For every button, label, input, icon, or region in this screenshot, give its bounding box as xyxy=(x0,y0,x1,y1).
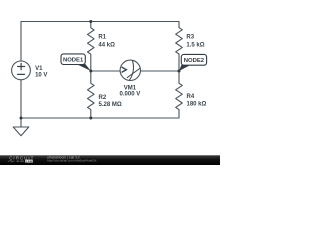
svg-text:http://circuitlab.com/c4p6sy64: http://circuitlab.com/c4p6sy64na62k xyxy=(47,159,97,163)
svg-text:R3: R3 xyxy=(186,34,194,40)
svg-text:NODE1: NODE1 xyxy=(63,58,84,64)
svg-text:V1: V1 xyxy=(35,66,43,72)
svg-text:0.000 V: 0.000 V xyxy=(120,92,141,98)
svg-text:180 kΩ: 180 kΩ xyxy=(187,101,207,107)
svg-text:R1: R1 xyxy=(98,34,106,40)
svg-text:LAB: LAB xyxy=(26,159,33,163)
svg-text:NODE2: NODE2 xyxy=(184,58,205,64)
svg-text:44 kΩ: 44 kΩ xyxy=(98,42,115,48)
svg-text:10 V: 10 V xyxy=(35,72,47,78)
svg-text:R2: R2 xyxy=(99,95,107,101)
svg-text:R4: R4 xyxy=(187,94,195,100)
svg-text:5.28 MΩ: 5.28 MΩ xyxy=(99,102,122,108)
svg-text:1.5 kΩ: 1.5 kΩ xyxy=(186,42,204,48)
svg-text:VM1: VM1 xyxy=(124,85,137,91)
